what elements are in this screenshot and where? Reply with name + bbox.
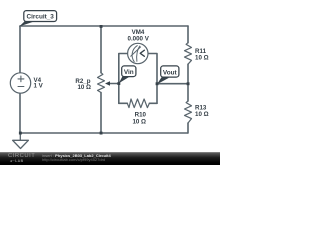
svg-text:10 Ω: 10 Ω bbox=[195, 111, 209, 118]
wire left rail top (V4 top lead) bbox=[19, 26, 21, 73]
svg-text:10 Ω: 10 Ω bbox=[132, 118, 146, 125]
wire loop bottom right (R10 right lead) bbox=[149, 102, 157, 104]
voltmeter VM4 bbox=[128, 43, 148, 63]
wire R2_p leads bbox=[100, 26, 102, 133]
wire right rail (R11/R13 leads) bbox=[187, 26, 189, 133]
svg-text:Circuit_3: Circuit_3 bbox=[27, 14, 55, 21]
label R10 value bbox=[132, 112, 146, 126]
wire potentiometer wiper lead bbox=[110, 83, 119, 85]
footer logo CIRCUIT bbox=[8, 154, 35, 160]
svg-text:10 Ω: 10 Ω bbox=[195, 55, 209, 62]
node flag Vin bbox=[119, 66, 136, 83]
svg-text:1 V: 1 V bbox=[34, 83, 44, 90]
ground bbox=[13, 133, 29, 149]
potentiometer R2_p wiper arrow bbox=[105, 81, 110, 86]
node flag Circuit_3 bbox=[19, 11, 56, 27]
wire Vout node to right rail bbox=[157, 83, 188, 85]
resistor R11 bbox=[185, 43, 192, 64]
footer bar bbox=[0, 152, 220, 165]
resistor R10 bbox=[127, 99, 149, 108]
wire left rail bottom (V4 bottom lead) bbox=[19, 93, 21, 133]
node junction dots bbox=[19, 25, 190, 135]
svg-text:10 Ω: 10 Ω bbox=[77, 84, 91, 91]
wire voltmeter right lead to Vout branch bbox=[148, 54, 157, 104]
svg-text:0.000 V: 0.000 V bbox=[128, 36, 150, 43]
wire top from source to right rail bbox=[20, 25, 188, 27]
label R11 value bbox=[195, 48, 209, 62]
wire voltmeter left lead to Vin branch bbox=[119, 54, 128, 104]
footer logo LAB bbox=[10, 160, 24, 163]
potentiometer R2_p bbox=[98, 73, 105, 93]
voltage source V4 bbox=[10, 73, 30, 93]
wire bottom from ground node to right rail bbox=[20, 132, 188, 134]
footer insert text bbox=[42, 154, 111, 158]
label V4 value bbox=[34, 77, 44, 90]
node flag Vout bbox=[157, 66, 179, 84]
svg-text:Vout: Vout bbox=[163, 69, 178, 76]
wire loop bottom left (R10 left lead) bbox=[119, 102, 128, 104]
label R13 value bbox=[195, 105, 209, 118]
label VM4 value bbox=[128, 29, 150, 42]
resistor R13 bbox=[185, 101, 192, 123]
footer url text bbox=[42, 158, 105, 162]
label R2_p value bbox=[75, 78, 91, 91]
svg-text:Vin: Vin bbox=[124, 69, 134, 76]
